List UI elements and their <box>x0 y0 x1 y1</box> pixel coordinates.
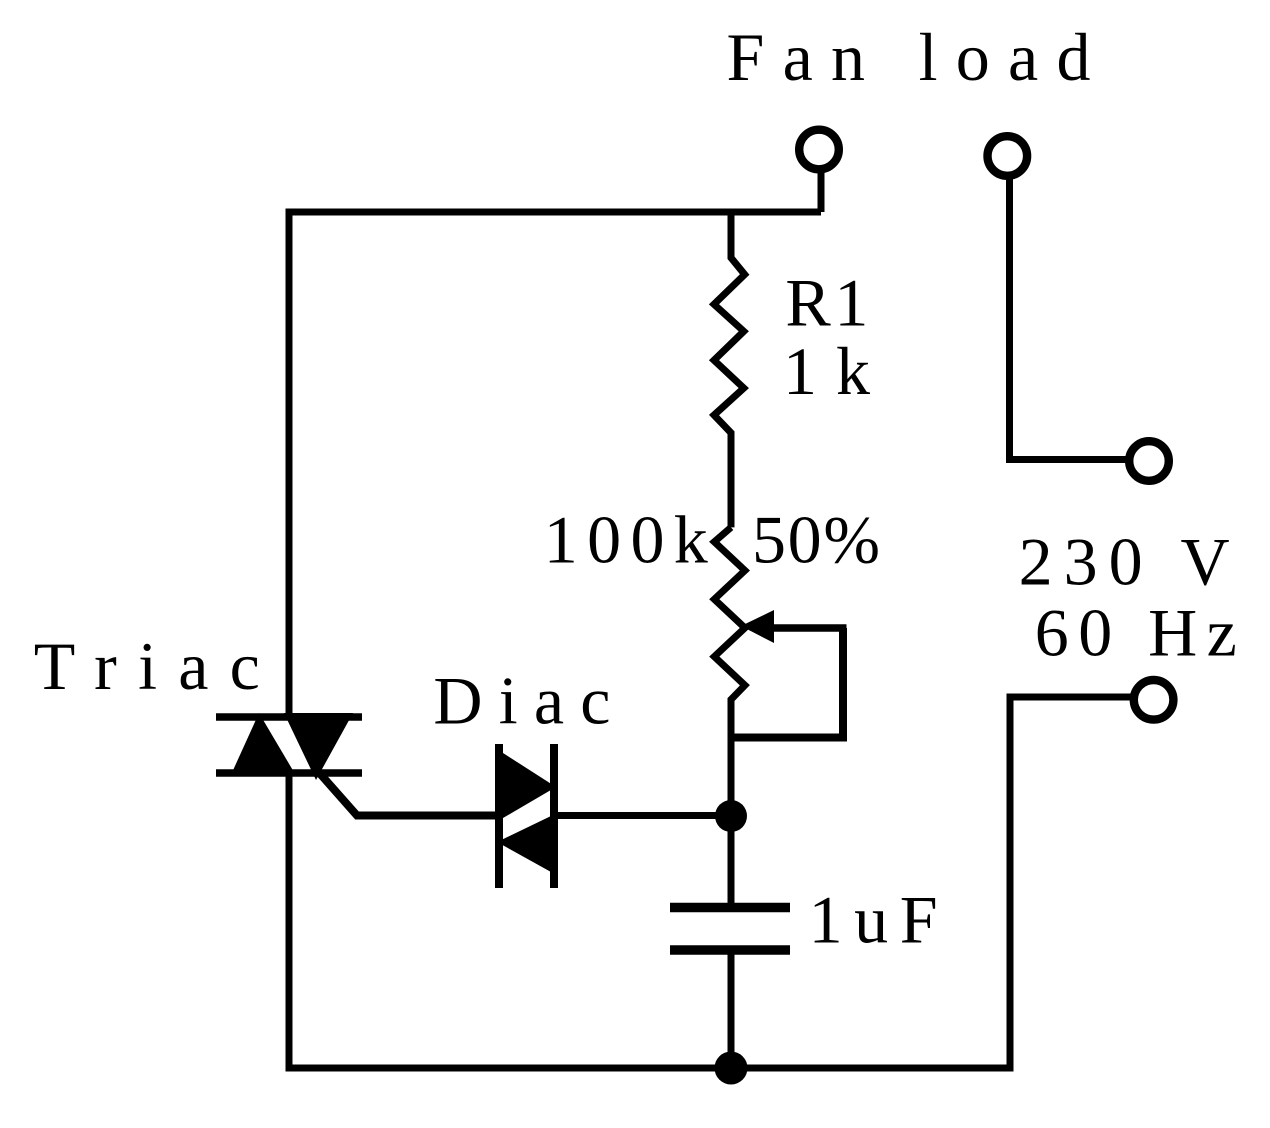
label Triac <box>34 628 260 704</box>
wire wiper loop <box>729 628 843 738</box>
terminal T1 (fan load left) <box>799 130 839 170</box>
svg-text:100k: 100k <box>544 502 708 578</box>
terminal T4 (source bottom) <box>1134 680 1174 720</box>
terminal T2 (fan load right) <box>988 136 1028 176</box>
wire bottom horizontal <box>286 1065 1014 1072</box>
svg-text:1k: 1k <box>783 333 870 409</box>
label 230 V <box>1019 523 1230 599</box>
wire T2 to T3 <box>1010 176 1129 460</box>
value label 1k <box>783 333 870 409</box>
value label 50% <box>752 502 880 578</box>
label Fan load <box>727 19 1091 95</box>
wire T4 to bottom <box>1010 697 1133 1068</box>
node B junction dot <box>715 1052 748 1085</box>
svg-text:1uF: 1uF <box>809 881 938 957</box>
label 60 Hz <box>1035 594 1237 670</box>
value label 100k <box>544 502 708 578</box>
svg-text:50%: 50% <box>752 502 880 578</box>
potentiometer wiper arrow <box>741 610 847 643</box>
triac Q1 <box>216 713 362 780</box>
wire left vertical upper <box>286 209 293 718</box>
diac D1 <box>497 744 556 888</box>
potentiometer body 100k <box>714 527 745 903</box>
value label 1uF <box>809 881 938 957</box>
wire left vertical lower <box>286 773 293 1072</box>
wire diac to node A <box>558 812 731 819</box>
svg-text:R1: R1 <box>785 265 868 341</box>
svg-text:60 Hz: 60 Hz <box>1035 594 1237 670</box>
svg-text:Triac: Triac <box>34 628 260 704</box>
wire triac gate <box>315 768 495 816</box>
svg-text:230 V: 230 V <box>1019 523 1230 599</box>
wire top horizontal <box>289 209 821 216</box>
label Diac <box>433 663 610 739</box>
svg-text:Fan load: Fan load <box>727 19 1091 95</box>
label R1 <box>785 265 868 341</box>
svg-text:Diac: Diac <box>433 663 610 739</box>
terminal T3 (source top) <box>1129 441 1169 481</box>
node A junction dot <box>715 800 747 832</box>
wire T1 lead <box>818 169 825 212</box>
capacitor C1 <box>670 908 790 951</box>
wire capacitor bottom lead <box>728 950 735 1068</box>
resistor R1 <box>714 212 745 527</box>
